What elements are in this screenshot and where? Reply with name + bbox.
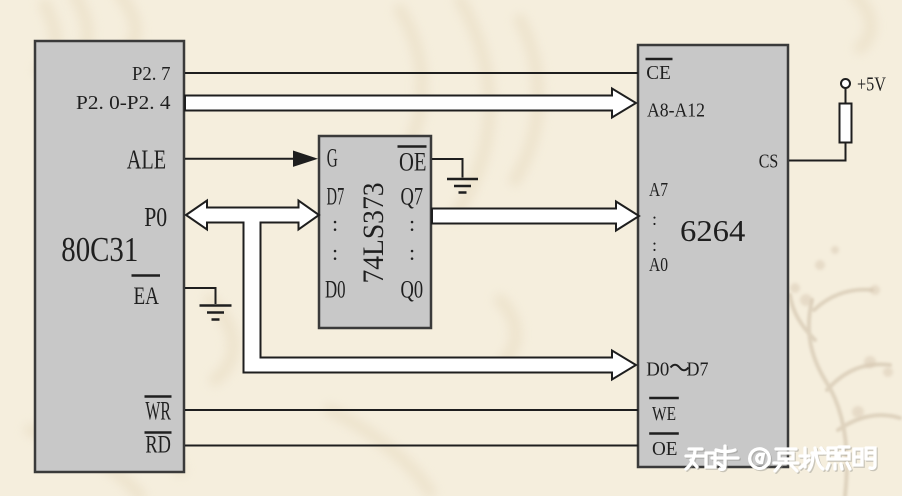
IC 80C31 box bbox=[35, 41, 184, 472]
ground (EA) bbox=[200, 306, 232, 320]
label OE(373) with overline bbox=[398, 145, 427, 148]
svg-text:D7: D7 bbox=[327, 184, 345, 211]
wire RD to OE bbox=[185, 445, 638, 447]
乎 bbox=[712, 446, 738, 469]
wire P2.7 to CE bbox=[185, 72, 638, 74]
svg-text:A8-A12: A8-A12 bbox=[647, 100, 705, 122]
svg-text:ALE: ALE bbox=[127, 145, 166, 175]
bus P0 bidirectional arrow bbox=[186, 201, 319, 230]
svg-text:+5V: +5V bbox=[857, 74, 886, 96]
svg-text:80C31: 80C31 bbox=[61, 230, 138, 269]
知 bbox=[686, 449, 715, 469]
bus vertical branch from P0 and data bus to 6264 D0-D7 bbox=[245, 219, 635, 378]
bus A8-A12 arrow bbox=[185, 89, 636, 118]
label CE with overline bbox=[646, 58, 673, 61]
svg-text:74LS373: 74LS373 bbox=[357, 183, 390, 284]
wire WR to WE bbox=[185, 409, 638, 411]
svg-text:OE: OE bbox=[652, 438, 678, 460]
svg-text:P0: P0 bbox=[144, 202, 167, 232]
明 bbox=[854, 448, 875, 468]
svg-text::: : bbox=[332, 240, 338, 265]
svg-text:A0: A0 bbox=[649, 254, 668, 276]
ground (373 OE) bbox=[447, 179, 478, 193]
IC 6264 box bbox=[638, 45, 788, 467]
IC 74LS373 box bbox=[319, 136, 431, 328]
svg-text:D7: D7 bbox=[687, 359, 709, 381]
svg-text::: : bbox=[409, 240, 415, 265]
label OE(6264) with overline bbox=[649, 432, 679, 435]
svg-text:Q0: Q0 bbox=[401, 277, 424, 304]
@ bbox=[750, 449, 770, 469]
svg-text::: : bbox=[409, 211, 415, 236]
terminal circle +5V bbox=[841, 79, 850, 88]
照 bbox=[827, 447, 850, 469]
wire resistor to +5V terminal bbox=[845, 88, 847, 104]
wire CS to resistor bbox=[789, 143, 846, 161]
svg-text:OE: OE bbox=[399, 148, 427, 177]
wire EA to ground bbox=[185, 288, 216, 304]
svg-text:P2. 7: P2. 7 bbox=[132, 63, 171, 85]
label WE with overline bbox=[649, 397, 679, 400]
svg-text:P2. 0-P2. 4: P2. 0-P2. 4 bbox=[76, 92, 171, 114]
svg-text:WR: WR bbox=[145, 397, 171, 426]
城 bbox=[800, 448, 825, 470]
label RD with overline bbox=[145, 431, 172, 434]
虞 bbox=[774, 449, 798, 471]
resistor R (pull-up) bbox=[840, 104, 852, 143]
svg-text:CS: CS bbox=[759, 151, 779, 173]
svg-text:WE: WE bbox=[652, 403, 676, 425]
svg-text:Q7: Q7 bbox=[401, 184, 424, 211]
svg-text:A7: A7 bbox=[649, 179, 668, 201]
svg-text::: : bbox=[652, 235, 657, 255]
svg-text:G: G bbox=[327, 144, 338, 173]
svg-text:D0: D0 bbox=[325, 277, 346, 304]
watermark zhihu bbox=[686, 446, 876, 472]
decorative branch right bbox=[790, 290, 900, 496]
label EA with overline bbox=[132, 274, 161, 277]
wire ALE bbox=[185, 158, 296, 160]
svg-text:CE: CE bbox=[646, 62, 671, 84]
svg-text:6264: 6264 bbox=[680, 213, 746, 248]
svg-text::: : bbox=[652, 209, 657, 229]
svg-text::: : bbox=[332, 211, 338, 236]
svg-text:D0: D0 bbox=[646, 359, 669, 381]
bus Q7-Q0 to A7-A0 arrow bbox=[432, 202, 639, 231]
svg-text:RD: RD bbox=[145, 432, 171, 459]
wire OE(373) to ground bbox=[432, 159, 463, 178]
arrowhead ALE into G bbox=[293, 151, 318, 167]
svg-text:EA: EA bbox=[134, 283, 160, 310]
label WR with overline bbox=[145, 395, 172, 398]
